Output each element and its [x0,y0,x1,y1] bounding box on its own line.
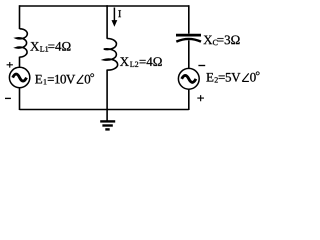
minus sign of E2 [198,65,205,67]
capacitor XC plate 2 (curved) [176,39,201,42]
wire: middle branch upper [106,5,108,39]
wire: left branch lower [19,88,21,110]
value label XL2=4ohm [120,57,162,67]
value label 0 degrees of E1 [85,73,94,83]
wire: bottom from node D to node C [20,109,189,111]
plus sign of E1 [7,62,13,68]
wire: left branch mid [19,57,21,68]
value label E2=5V [206,73,240,83]
wire: middle branch lower [106,70,108,110]
value label XL1=4ohm [30,42,70,52]
capacitor XC plate 1 [176,34,201,37]
plus sign of E2 [197,95,204,101]
wire: right branch mid [188,40,190,68]
inductor XL2 [104,38,118,70]
current label I [118,10,121,17]
value label E1=10V [35,75,75,85]
wire: top from node A to node B [20,5,189,7]
minus sign of E1 [5,97,11,99]
angle symbol of E1 [77,75,84,83]
wire: right branch upper [188,5,190,34]
value label XC=3ohm [203,35,239,45]
wire: right branch lower [188,89,190,110]
source E2 (ac) [178,68,199,89]
inductor XL1 [16,29,27,57]
current arrow I [113,8,115,22]
source E1 (ac) [9,67,29,87]
wire: left branch upper [19,5,21,29]
angle symbol of E2 [242,73,249,81]
ground [106,110,108,122]
value label 0 degrees of E2 [250,72,259,82]
